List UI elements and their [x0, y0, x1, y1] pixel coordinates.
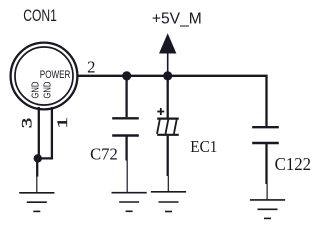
ground lead C72 — [126, 161, 128, 193]
svg-text:GND: GND — [30, 81, 41, 98]
capacitor EC1 bottom plate — [157, 134, 179, 136]
power symbol lead wire — [167, 54, 169, 76]
svg-text:CON1: CON1 — [23, 7, 57, 25]
wire C122 to ground — [265, 144, 267, 184]
svg-text:2: 2 — [87, 58, 95, 77]
svg-text:POWER: POWER — [40, 69, 71, 81]
junction dot bus/EC1 — [163, 71, 172, 80]
ground lead (left) — [36, 177, 38, 193]
capacitor C72 bottom plate — [112, 134, 139, 136]
svg-text:GND: GND — [41, 81, 52, 98]
svg-text:3: 3 — [18, 118, 35, 128]
capacitor C122 bottom plate — [252, 142, 279, 144]
ground symbol (left) — [19, 193, 54, 212]
junction dot bus/C72 — [122, 71, 131, 80]
wire bus to C72 — [125, 76, 127, 117]
capacitor C72 top plate — [112, 117, 139, 119]
ground symbol C72 — [112, 193, 147, 212]
wire pin1 vertical and across — [39, 107, 52, 158]
connector CON1 outer circle — [11, 43, 78, 110]
wire C72 to ground — [125, 137, 127, 161]
svg-text:1: 1 — [54, 117, 71, 129]
wire pin3 vertical — [38, 107, 40, 158]
wire EC1 to ground — [167, 136, 169, 176]
capacitor EC1 top plate — [157, 117, 179, 119]
power symbol +5V_M triangle — [159, 33, 176, 53]
capacitor EC1 hatched body — [157, 120, 177, 134]
capacitor EC1 plus sign — [157, 108, 164, 115]
connector CON1 inner circle — [15, 47, 73, 105]
svg-text:C72: C72 — [90, 145, 118, 164]
ground symbol EC1 — [151, 192, 186, 212]
wire junction to ground (left) — [36, 158, 38, 176]
capacitor C122 top plate — [252, 126, 279, 128]
svg-text:C122: C122 — [275, 154, 311, 175]
junction dot pins 3/1 — [34, 154, 42, 162]
wire bus to EC1 — [167, 76, 169, 118]
ground symbol C122 — [250, 200, 285, 219]
ground lead EC1 — [167, 176, 169, 192]
svg-text:+5V_M: +5V_M — [152, 11, 202, 28]
ground lead C122 — [266, 184, 268, 200]
svg-text:EC1: EC1 — [190, 138, 217, 156]
wire bus +5V_M horizontal then down to C122 — [78, 76, 267, 127]
